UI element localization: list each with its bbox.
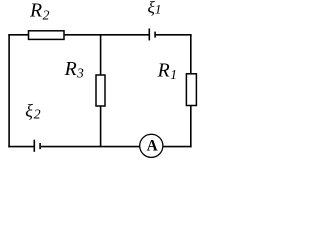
svg-text:2: 2 [43, 7, 50, 22]
svg-text:ξ: ξ [25, 101, 33, 121]
svg-text:1: 1 [170, 67, 177, 82]
svg-text:R: R [157, 59, 170, 81]
svg-text:2: 2 [34, 107, 41, 122]
svg-text:R: R [29, 0, 42, 21]
svg-text:A: A [147, 138, 158, 155]
svg-text:R: R [64, 58, 77, 80]
svg-text:3: 3 [76, 66, 84, 81]
svg-text:1: 1 [155, 2, 162, 17]
